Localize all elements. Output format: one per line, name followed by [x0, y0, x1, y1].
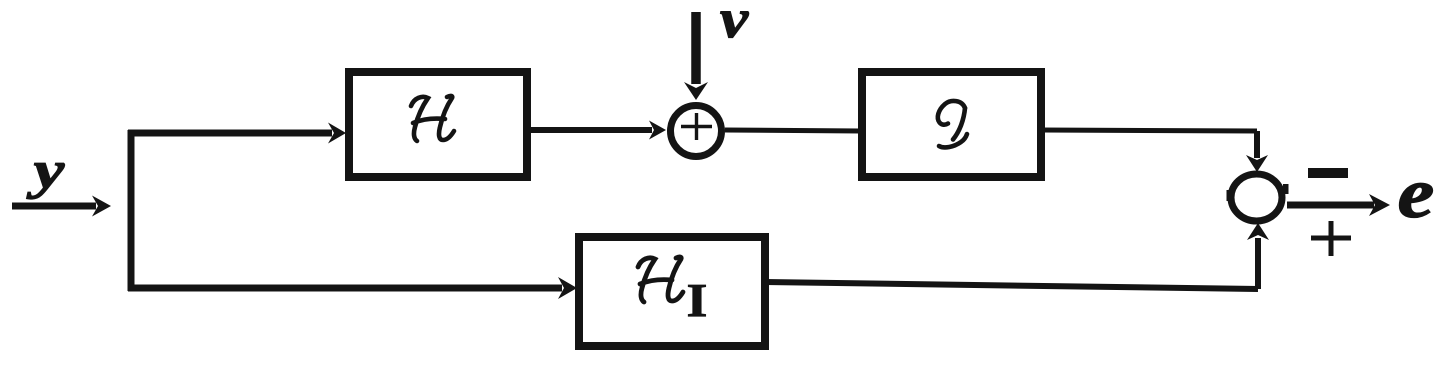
label G (script)	[938, 101, 967, 147]
wire branch to H	[128, 130, 332, 137]
wire up into sum2	[1255, 238, 1261, 289]
sign minus	[1308, 168, 1348, 178]
summing junction S1	[671, 106, 722, 157]
svg-text:I: I	[687, 275, 708, 328]
sign plus	[1311, 221, 1351, 256]
svg-text:v: v	[720, 0, 749, 49]
svg-text:e: e	[1398, 154, 1435, 232]
wire H to sum1	[527, 127, 652, 133]
block G	[862, 72, 1041, 177]
wire G to corner	[1041, 130, 1257, 131]
summing junction S2	[1231, 174, 1282, 221]
wire output e	[1287, 202, 1374, 209]
wire HI to corner	[765, 282, 1258, 289]
wire bottom branch to HI	[128, 285, 562, 292]
label H (script)	[411, 96, 454, 141]
wire sum1 to G	[725, 130, 861, 131]
wire left vertical branch	[128, 130, 135, 291]
block HI	[579, 237, 765, 346]
block H	[349, 72, 527, 177]
wire y input arrow	[12, 203, 96, 210]
svg-text:y: y	[26, 141, 65, 200]
label HI (script H with subscript I)	[638, 257, 683, 302]
wire v arrow	[691, 12, 701, 84]
wire down into sum2	[1254, 131, 1260, 158]
